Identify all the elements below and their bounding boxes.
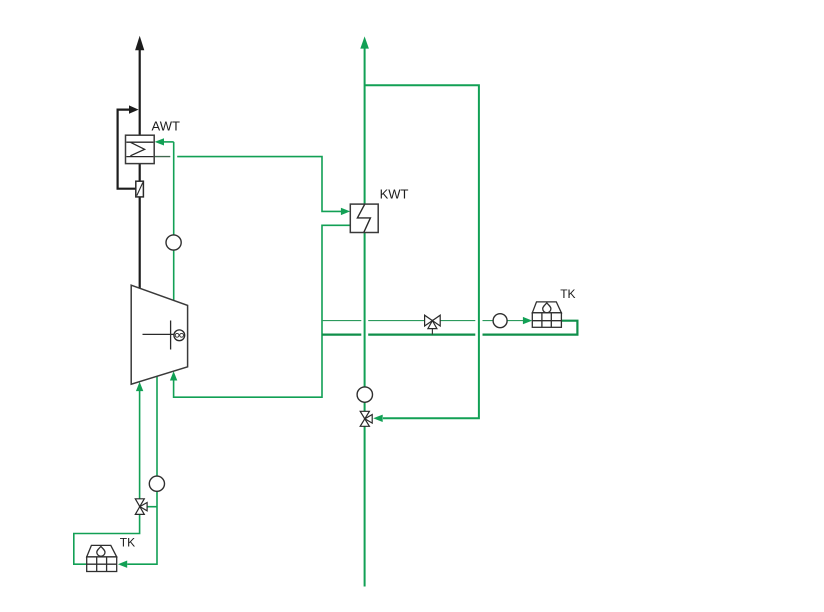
- cooling tower TK (bottom left): [87, 545, 117, 571]
- svg-text:AWT: AWT: [152, 119, 180, 134]
- wire: AWT inlet horizontal from riser: [164, 141, 174, 143]
- wire: AWT outlet dark overlap segment: [154, 156, 170, 158]
- arrow: arrowhead up into turbine bottom (left): [136, 382, 143, 391]
- wire: cooling tower supply line (thin): [322, 320, 524, 322]
- heat exchanger KWT (box): [350, 204, 378, 232]
- arrow: arrowhead into TK (bottom) tank right port: [118, 561, 127, 568]
- wire: junction stub valve V3 to P2 line: [147, 506, 157, 508]
- arrow: arrowhead into KWT left port: [341, 208, 350, 215]
- arrow: arrowhead into TK (top) tank: [523, 317, 532, 324]
- wire: KWT return loop L2 to turbine: [174, 225, 351, 397]
- wire: riser V2 lower (pump to turbine top): [173, 250, 175, 300]
- wire: main cooling vertical V1 between pump and valve: [364, 402, 366, 411]
- wire: main cooling vertical V1 upper segment: [364, 48, 366, 204]
- heat exchanger AWT (box): [126, 135, 155, 163]
- generator G on turbine shaft: [174, 330, 185, 341]
- wire: cooling tower return line (thick): [322, 321, 577, 335]
- arrow: arrowhead into AWT right port: [155, 138, 164, 145]
- svg-text:TK: TK: [120, 536, 135, 550]
- wire: below valve V3 around to tank left port: [74, 515, 140, 565]
- wire: AWT recirculation loop (black): [118, 110, 137, 189]
- arrow: arrowhead up into turbine bottom (right): [170, 371, 177, 380]
- arrow: V1 top outlet arrowhead: [360, 36, 369, 48]
- wire: turbine outlet down to pump P2: [156, 376, 158, 476]
- wire: main steam line (black): [139, 50, 141, 289]
- cooling tower TK (top right): [532, 302, 561, 327]
- throttle valve on steam line below AWT: [136, 181, 144, 197]
- turbine T1 (trapezoid): [131, 285, 187, 384]
- wire: right bypass loop B1 (top branch, right vertical, into valve): [365, 85, 479, 418]
- wire: AWT outlet to KWT loop L1: [177, 157, 341, 212]
- wire: tank to turbine riser (above valve V3): [139, 390, 141, 499]
- turbine shaft cross: [143, 321, 174, 350]
- arrow: recirculation arrowhead into steam line: [129, 105, 139, 113]
- pump P1 on AWT riser: [166, 235, 181, 250]
- wire: valve V4 stem to return line: [431, 328, 433, 334]
- wire: main cooling vertical V1 lower segment: [364, 426, 366, 586]
- pump P2 on turbine outlet: [149, 476, 164, 491]
- wire: riser V2 upper (to pump): [173, 142, 175, 235]
- 3-way valve V2 on main cooling vertical: [360, 411, 372, 426]
- 3-way valve V3 on tank-to-turbine riser: [135, 499, 147, 515]
- pump P3 on cooling tower supply: [493, 314, 507, 328]
- svg-text:KWT: KWT: [380, 186, 409, 201]
- pump P4 on main cooling vertical: [357, 387, 372, 402]
- svg-text:TK: TK: [560, 287, 575, 301]
- wire: main cooling vertical V1 mid segment (KWT bottom to pump): [364, 233, 366, 388]
- arrow: B1 arrowhead into 3-way valve: [373, 415, 383, 422]
- wire: pump P2 down, corner, to tank arrow: [127, 491, 157, 564]
- 3-way valve V4 on cooling tower supply: [425, 315, 441, 328]
- arrow: steam line top arrowhead: [135, 36, 144, 51]
